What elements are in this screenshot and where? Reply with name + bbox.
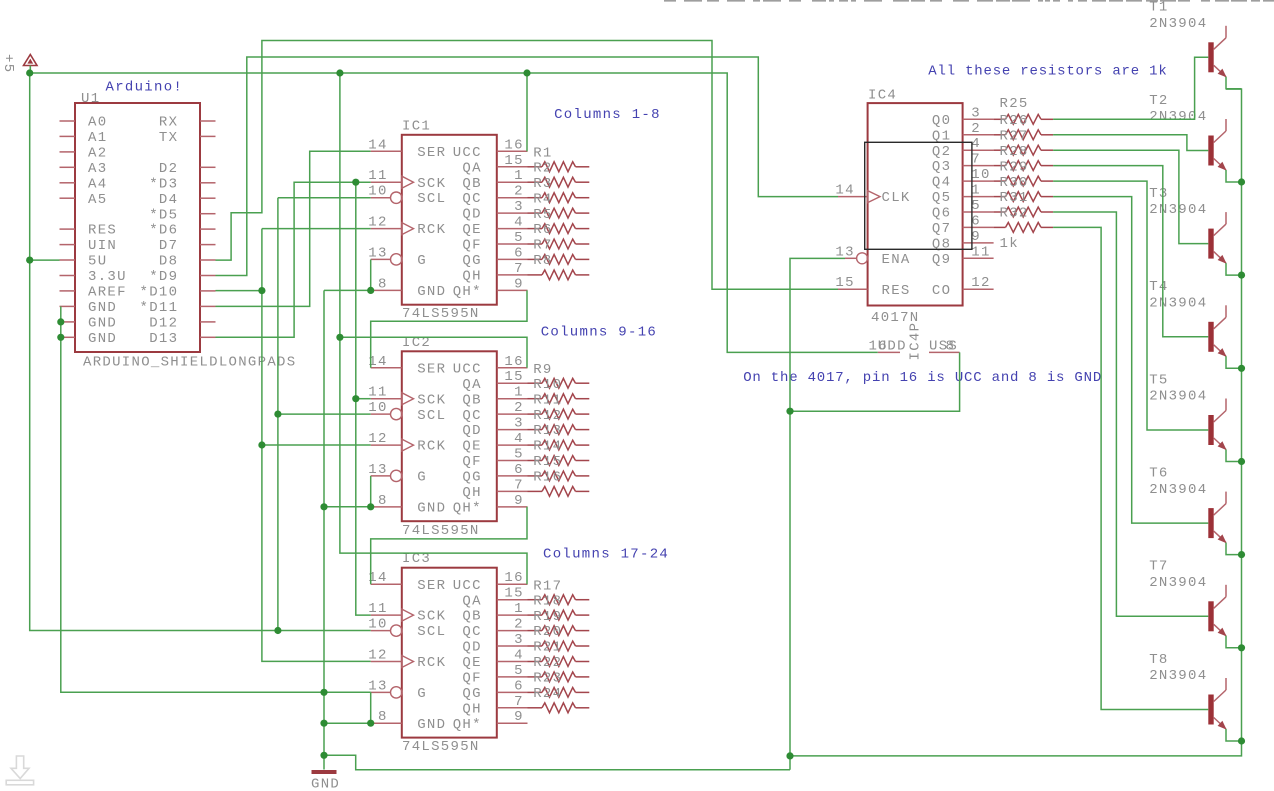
svg-text:R9: R9 xyxy=(533,362,552,378)
wire R27 to T3 base xyxy=(1053,150,1208,243)
wire T8 emitter to rail xyxy=(1226,729,1242,741)
pin 13 G (IC1) xyxy=(368,245,427,269)
junction VSS join xyxy=(786,408,793,415)
pin 2 QC (IC3) xyxy=(462,617,527,641)
pin 15 QA (IC3) xyxy=(462,586,527,610)
svg-text:R22: R22 xyxy=(533,655,562,671)
wire T2 emitter to rail xyxy=(1226,170,1242,182)
svg-text:1: 1 xyxy=(971,183,981,199)
wire D11 to IC1 SER xyxy=(216,151,371,306)
svg-text:5: 5 xyxy=(514,447,524,463)
resistor R13 1k xyxy=(528,423,590,450)
pin 1 QB (IC1) xyxy=(462,168,527,192)
svg-text:3: 3 xyxy=(514,416,524,432)
svg-text:QH*: QH* xyxy=(453,717,482,733)
svg-text:7: 7 xyxy=(514,477,524,493)
pin 1 QB (IC2) xyxy=(462,385,527,409)
pin 12 RCK (IC3) xyxy=(368,648,446,672)
svg-text:R6: R6 xyxy=(533,222,552,238)
wire R25 to T1 base xyxy=(1053,57,1208,119)
wire SCK column xyxy=(356,182,371,615)
svg-text:R32: R32 xyxy=(1000,206,1029,222)
svg-text:12: 12 xyxy=(368,215,387,231)
svg-text:4: 4 xyxy=(514,215,524,231)
pin RX (U1 right) xyxy=(159,115,216,131)
wire +5V branch drop xyxy=(340,73,527,584)
svg-text:SER: SER xyxy=(417,361,446,377)
resistor R14 1k xyxy=(528,439,590,466)
svg-text:15: 15 xyxy=(504,153,523,169)
svg-text:11: 11 xyxy=(368,601,387,617)
svg-text:QG: QG xyxy=(462,470,481,486)
resistor R28 1k xyxy=(994,144,1054,171)
svg-text:4: 4 xyxy=(514,431,524,447)
junction GND IC2 xyxy=(320,503,327,510)
svg-text:QF: QF xyxy=(462,238,481,254)
svg-text:5: 5 xyxy=(514,663,524,679)
svg-text:RCK: RCK xyxy=(417,222,446,238)
pin 5 QF (IC1) xyxy=(462,230,527,254)
pin 15 RES (IC4) xyxy=(835,275,910,299)
pin A1 (U1 left) xyxy=(60,130,108,146)
svg-text:GND: GND xyxy=(417,501,446,517)
svg-text:R30: R30 xyxy=(1000,175,1029,191)
svg-text:SCK: SCK xyxy=(417,392,446,408)
svg-text:12: 12 xyxy=(368,431,387,447)
ground symbol GND xyxy=(311,772,340,791)
junction G2/GND2 xyxy=(367,503,374,510)
svg-text:R12: R12 xyxy=(533,408,562,424)
pin *D5 (U1 right) xyxy=(149,207,215,223)
wire R32 to T8 base xyxy=(1053,227,1208,709)
svg-text:T4: T4 xyxy=(1149,279,1168,295)
svg-text:2: 2 xyxy=(514,184,524,200)
pin A2 (U1 left) xyxy=(60,146,108,162)
svg-text:R24: R24 xyxy=(533,686,562,702)
wire R28 to T4 base xyxy=(1053,166,1208,337)
junction GND pin3 xyxy=(57,334,64,341)
svg-text:1k: 1k xyxy=(1000,236,1019,252)
junction T5 emitter xyxy=(1238,458,1245,465)
svg-text:Q5: Q5 xyxy=(932,190,951,206)
pin 4 Q2 (IC4) xyxy=(932,136,994,160)
svg-text:D2: D2 xyxy=(159,161,178,177)
svg-text:R10: R10 xyxy=(533,377,562,393)
svg-text:6: 6 xyxy=(514,678,524,694)
junction D10/RCK xyxy=(258,287,265,294)
svg-text:A3: A3 xyxy=(88,161,107,177)
junction T8 emitter xyxy=(1238,737,1245,744)
junction G1/GND1 xyxy=(367,287,374,294)
svg-text:6: 6 xyxy=(514,245,524,261)
svg-text:T8: T8 xyxy=(1149,652,1168,668)
pin D12 (U1 right) xyxy=(149,316,215,332)
transistor T8 2N3904 xyxy=(1208,678,1226,730)
svg-text:8: 8 xyxy=(378,276,388,292)
svg-text:9: 9 xyxy=(514,276,524,292)
svg-text:QB: QB xyxy=(462,609,481,625)
svg-text:5: 5 xyxy=(514,230,524,246)
svg-text:G: G xyxy=(417,470,427,486)
pin 12 RCK (IC2) xyxy=(368,431,446,455)
resistor R1 1k xyxy=(528,145,590,171)
svg-text:Columns 1-8: Columns 1-8 xyxy=(554,107,661,123)
pin 7 QH (IC2) xyxy=(462,477,527,501)
junction T3 emitter xyxy=(1238,272,1245,279)
resistor R6 1k xyxy=(528,222,590,249)
svg-text:R17: R17 xyxy=(533,578,562,594)
svg-text:QE: QE xyxy=(462,655,481,671)
svg-text:R1: R1 xyxy=(533,145,552,161)
resistor R18 1k xyxy=(528,593,590,620)
svg-text:Arduino!: Arduino! xyxy=(106,80,184,96)
resistor R12 1k xyxy=(528,408,590,435)
svg-text:3: 3 xyxy=(971,105,981,121)
wire RCK to IC2 pin12 xyxy=(262,444,371,446)
wire IC3 G to GND xyxy=(370,692,372,723)
svg-text:QH: QH xyxy=(462,485,481,501)
pin *D6 (U1 right) xyxy=(149,223,215,239)
pin 3 QD (IC2) xyxy=(462,416,527,440)
svg-text:16: 16 xyxy=(504,570,523,586)
svg-text:TX: TX xyxy=(159,130,178,146)
resistor R9 1k xyxy=(528,362,590,388)
pin 9 QH* (IC1) xyxy=(453,276,528,300)
svg-text:IC1: IC1 xyxy=(402,118,431,134)
pin *D10 (U1 right) xyxy=(140,285,216,301)
pin 8 GND (IC1) xyxy=(371,276,447,300)
pin 9 QH* (IC2) xyxy=(453,493,528,517)
junction VCC2 branch xyxy=(336,334,343,341)
junction SCK IC1 xyxy=(352,179,359,186)
transistor T6 2N3904 xyxy=(1208,492,1226,544)
wire +5V left drop to SRCLR run xyxy=(30,73,371,631)
svg-text:R13: R13 xyxy=(533,423,562,439)
pin 16 UCC (IC3) xyxy=(453,570,528,594)
svg-text:SCL: SCL xyxy=(417,624,446,640)
IC U1 ARDUINO_SHIELDLONGPADS xyxy=(75,103,200,352)
svg-text:7: 7 xyxy=(971,152,981,168)
pin 13 ENA (IC4) xyxy=(835,244,910,268)
pin D4 (U1 right) xyxy=(159,192,216,208)
svg-text:D7: D7 xyxy=(159,238,178,254)
wire R30 to T6 base xyxy=(1053,197,1208,523)
svg-text:Q2: Q2 xyxy=(932,144,951,160)
pin 6 QG (IC3) xyxy=(462,678,527,702)
svg-text:RES: RES xyxy=(882,283,911,299)
svg-text:*D6: *D6 xyxy=(149,223,178,239)
pin 9 Q8 (IC4) xyxy=(932,229,994,253)
svg-text:1: 1 xyxy=(514,385,524,401)
svg-text:QF: QF xyxy=(462,454,481,470)
svg-text:IC4P: IC4P xyxy=(908,322,924,361)
wire IC1 QH* to IC2 SER xyxy=(371,290,527,367)
svg-text:13: 13 xyxy=(368,462,387,478)
pin 14 SER (IC3) xyxy=(368,570,446,594)
resistor R25 1k xyxy=(994,96,1054,124)
pin 5 QF (IC2) xyxy=(462,447,527,471)
pin RES (U1 left) xyxy=(60,223,118,239)
wire IC2 QH* to IC3 SER xyxy=(371,507,527,584)
resistor R30 1k xyxy=(994,175,1054,202)
svg-text:QG: QG xyxy=(462,253,481,269)
junction T4 emitter xyxy=(1238,365,1245,372)
pin 1 QB (IC3) xyxy=(462,601,527,625)
svg-text:*D3: *D3 xyxy=(149,176,178,192)
pin D13 (U1 right) xyxy=(149,331,215,347)
svg-text:6: 6 xyxy=(971,213,981,229)
svg-text:A2: A2 xyxy=(88,146,107,162)
svg-text:*D9: *D9 xyxy=(149,269,178,285)
svg-text:QH: QH xyxy=(462,269,481,285)
resistor R4 1k xyxy=(528,191,590,218)
wire D13 to IC1 SCK xyxy=(216,182,371,337)
pin 5U (U1 left) xyxy=(60,254,108,270)
svg-text:3: 3 xyxy=(514,632,524,648)
pin GND (U1 left) xyxy=(60,316,118,332)
pin 14 SER (IC2) xyxy=(368,354,446,378)
svg-text:GND: GND xyxy=(88,331,117,347)
pin 13 G (IC3) xyxy=(368,678,427,702)
svg-text:U1: U1 xyxy=(81,91,100,107)
svg-text:R5: R5 xyxy=(533,207,552,223)
svg-text:UCC: UCC xyxy=(453,145,482,161)
pin 2 Q1 (IC4) xyxy=(932,121,994,145)
wire +5V to IC1 VCC xyxy=(526,73,528,151)
pin 8 GND (IC2) xyxy=(371,493,447,517)
resistor R10 1k xyxy=(528,377,590,404)
svg-text:GND: GND xyxy=(417,284,446,300)
svg-text:Columns 9-16: Columns 9-16 xyxy=(541,325,657,341)
junction GND sym xyxy=(320,752,327,759)
svg-text:2N3904: 2N3904 xyxy=(1149,295,1207,311)
wire emitter return rail xyxy=(790,89,1242,756)
svg-text:6: 6 xyxy=(514,462,524,478)
junction T6 emitter xyxy=(1238,551,1245,558)
svg-text:R26: R26 xyxy=(1000,113,1029,129)
resistor R2 1k xyxy=(528,160,590,187)
pin *D11 (U1 right) xyxy=(140,300,216,316)
svg-text:Q6: Q6 xyxy=(932,206,951,222)
svg-text:QH*: QH* xyxy=(453,501,482,517)
svg-text:1: 1 xyxy=(514,168,524,184)
pin 11 SCK (IC3) xyxy=(368,601,446,625)
resistor R15 1k xyxy=(528,454,590,481)
svg-text:T2: T2 xyxy=(1149,93,1168,109)
pin 4 QE (IC2) xyxy=(462,431,527,455)
svg-text:All these resistors are 1k: All these resistors are 1k xyxy=(928,64,1167,80)
svg-text:IC4: IC4 xyxy=(868,88,897,104)
svg-text:4: 4 xyxy=(514,648,524,664)
junction +5V/symbol xyxy=(26,69,33,76)
resistor R32 1k xyxy=(994,206,1054,233)
pin AREF (U1 left) xyxy=(60,285,127,301)
svg-text:2N3904: 2N3904 xyxy=(1149,389,1207,405)
wire Arduino GND bracket xyxy=(61,306,371,692)
svg-text:74LS595N: 74LS595N xyxy=(402,739,480,755)
svg-text:*D5: *D5 xyxy=(149,207,178,223)
svg-text:10: 10 xyxy=(971,167,990,183)
junction GND G-run xyxy=(320,689,327,696)
svg-text:CLK: CLK xyxy=(882,190,911,206)
transistor T1 2N3904 xyxy=(1208,26,1226,78)
svg-text:3: 3 xyxy=(514,199,524,215)
svg-text:GND: GND xyxy=(88,316,117,332)
svg-text:15: 15 xyxy=(504,369,523,385)
pin 14 SER (IC1) xyxy=(368,137,446,161)
svg-text:R7: R7 xyxy=(533,238,552,254)
svg-text:QE: QE xyxy=(462,222,481,238)
svg-text:2: 2 xyxy=(514,617,524,633)
junction +5V branch xyxy=(336,69,343,76)
svg-text:SCK: SCK xyxy=(417,609,446,625)
pin 7 Q3 (IC4) xyxy=(932,152,994,176)
pin 5 Q6 (IC4) xyxy=(932,198,994,222)
svg-text:13: 13 xyxy=(368,678,387,694)
svg-text:QF: QF xyxy=(462,671,481,687)
pin 6 QG (IC1) xyxy=(462,245,527,269)
pin 11 SCK (IC1) xyxy=(368,168,446,192)
IC IC1 74LS595N xyxy=(402,135,497,305)
svg-text:13: 13 xyxy=(368,245,387,261)
pin 12 RCK (IC1) xyxy=(368,215,446,239)
svg-text:QC: QC xyxy=(462,624,481,640)
svg-text:G: G xyxy=(417,253,427,269)
svg-text:D4: D4 xyxy=(159,192,178,208)
svg-text:7: 7 xyxy=(514,261,524,277)
resistor R7 1k xyxy=(528,238,590,265)
wire +5V branch to IC2 VCC xyxy=(340,337,527,368)
transistor T4 2N3904 xyxy=(1208,305,1226,357)
wire SCL to IC2 pin10 xyxy=(278,413,371,415)
wire +5V rail top xyxy=(30,73,878,352)
svg-text:R31: R31 xyxy=(1000,190,1029,206)
svg-text:R21: R21 xyxy=(533,640,562,656)
pin 10 Q4 (IC4) xyxy=(932,167,994,191)
svg-text:10: 10 xyxy=(368,184,387,200)
svg-text:15: 15 xyxy=(835,275,854,291)
svg-text:D8: D8 xyxy=(159,254,178,270)
wire R26 to T2 base xyxy=(1053,135,1208,151)
svg-text:5: 5 xyxy=(971,198,981,214)
svg-text:QE: QE xyxy=(462,439,481,455)
svg-text:QA: QA xyxy=(462,160,481,176)
junction G3/GND3 xyxy=(367,720,374,727)
svg-text:R28: R28 xyxy=(1000,144,1029,160)
svg-text:R23: R23 xyxy=(533,671,562,687)
pin 16 UCC (IC1) xyxy=(453,137,528,161)
svg-text:14: 14 xyxy=(835,183,854,199)
svg-text:9: 9 xyxy=(514,709,524,725)
svg-text:GND: GND xyxy=(417,717,446,733)
pin 15 QA (IC2) xyxy=(462,369,527,393)
wire SCL column xyxy=(277,198,279,631)
svg-text:ARDUINO_SHIELDLONGPADS: ARDUINO_SHIELDLONGPADS xyxy=(83,355,296,371)
wire T6 emitter to rail xyxy=(1226,543,1242,555)
svg-text:GND: GND xyxy=(311,777,340,791)
junction SCK IC2 xyxy=(352,395,359,402)
wire D10 to RCK column xyxy=(216,290,262,292)
resistor R16 1k xyxy=(528,470,590,497)
wire GND rail bottom left xyxy=(324,755,790,770)
svg-text:D12: D12 xyxy=(149,316,178,332)
svg-text:Q8: Q8 xyxy=(932,237,951,253)
+5V supply symbol xyxy=(24,55,38,73)
svg-text:CO: CO xyxy=(932,283,951,299)
svg-text:R4: R4 xyxy=(533,191,552,207)
junction +5V IC1 VCC xyxy=(523,69,530,76)
wire RCK column xyxy=(262,229,371,662)
pin TX (U1 right) xyxy=(159,130,216,146)
svg-text:R18: R18 xyxy=(533,593,562,609)
svg-text:QG: QG xyxy=(462,686,481,702)
pin D2 (U1 right) xyxy=(159,161,216,177)
pin A5 (U1 left) xyxy=(60,192,108,208)
resistor R31 1k xyxy=(994,190,1054,217)
svg-text:2N3904: 2N3904 xyxy=(1149,668,1207,684)
pin D7 (U1 right) xyxy=(159,238,216,254)
svg-text:9: 9 xyxy=(971,229,981,245)
junction GND pin2 xyxy=(57,318,64,325)
wire VSS to GND column xyxy=(790,352,960,411)
svg-text:Q7: Q7 xyxy=(932,221,951,237)
pin 7 QH (IC1) xyxy=(462,261,527,285)
pin 3 QD (IC1) xyxy=(462,199,527,223)
svg-text:RCK: RCK xyxy=(417,655,446,671)
junction GND IC3 xyxy=(320,720,327,727)
pin 10 SCL (IC2) xyxy=(368,400,446,424)
svg-text:2N3904: 2N3904 xyxy=(1149,16,1207,32)
svg-text:74LS595N: 74LS595N xyxy=(402,523,480,539)
IC U4 4017N xyxy=(868,103,963,305)
wire IC1 G to GND xyxy=(370,260,372,291)
svg-text:11: 11 xyxy=(971,244,990,260)
download icon (page UI) xyxy=(6,756,33,785)
svg-text:QA: QA xyxy=(462,593,481,609)
junction +5V 5V pin xyxy=(26,257,33,264)
svg-text:11: 11 xyxy=(368,385,387,401)
svg-text:R19: R19 xyxy=(533,609,562,625)
wire R31 to T7 base xyxy=(1053,212,1208,616)
svg-text:R8: R8 xyxy=(533,253,552,269)
svg-text:ENA: ENA xyxy=(882,252,911,268)
svg-text:A5: A5 xyxy=(88,192,107,208)
wire T4 emitter to rail xyxy=(1226,356,1242,368)
svg-text:7: 7 xyxy=(514,694,524,710)
svg-text:2N3904: 2N3904 xyxy=(1149,575,1207,591)
svg-text:A1: A1 xyxy=(88,130,107,146)
svg-text:T6: T6 xyxy=(1149,465,1168,481)
pin UIN (U1 left) xyxy=(60,238,118,254)
junction T7 emitter xyxy=(1238,644,1245,651)
svg-text:QD: QD xyxy=(462,640,481,656)
pin GND (U1 left) xyxy=(60,331,118,347)
pin 16 UCC (IC2) xyxy=(453,354,528,378)
pin A4 (U1 left) xyxy=(60,176,108,192)
resistor R23 1k xyxy=(528,671,590,698)
pin 3 Q0 (IC4) xyxy=(932,105,994,129)
svg-text:A4: A4 xyxy=(88,176,107,192)
svg-text:T3: T3 xyxy=(1149,186,1168,202)
svg-text:QH*: QH* xyxy=(453,284,482,300)
wire T1 emitter to rail xyxy=(1226,77,1242,89)
svg-text:QC: QC xyxy=(462,191,481,207)
resistor R11 1k xyxy=(528,392,590,419)
svg-text:2N3904: 2N3904 xyxy=(1149,482,1207,498)
pin 8 GND (IC3) xyxy=(371,709,447,733)
svg-text:QA: QA xyxy=(462,377,481,393)
pin 11 SCK (IC2) xyxy=(368,385,446,409)
